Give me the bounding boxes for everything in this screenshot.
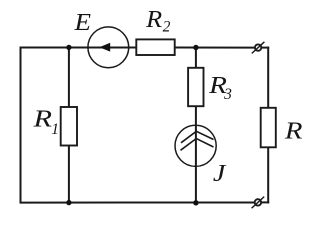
wire top right segment (261, 47, 269, 49)
wire R1 branch upper (68, 47, 70, 108)
wire bottom right segment (261, 201, 269, 203)
svg-text:2: 2 (163, 19, 171, 36)
wire middle branch upper (195, 47, 197, 68)
current source J circle (175, 125, 216, 166)
resistor R body (261, 108, 276, 148)
node junction dot bottom left (66, 200, 71, 205)
terminal bottom right (252, 197, 265, 209)
node junction dot top middle (193, 45, 198, 50)
voltage source E arrow (99, 43, 110, 52)
svg-text:R: R (145, 7, 162, 33)
current source J chevron upper (181, 131, 214, 143)
current source J chevron lower (181, 139, 214, 151)
node junction dot bottom middle (193, 200, 198, 205)
svg-text:R: R (32, 106, 52, 132)
wire R1 branch lower (68, 145, 70, 203)
wire bottom segment (20, 202, 255, 204)
terminal top right (252, 42, 265, 54)
label R3 (208, 73, 232, 103)
resistor R2 body (136, 39, 174, 55)
wire right rail lower (267, 147, 269, 203)
wire left rail (20, 47, 22, 204)
wire middle branch through J (195, 106, 197, 204)
svg-text:R: R (284, 119, 303, 145)
wire top left segment (20, 47, 137, 49)
label R2 (145, 7, 170, 36)
wire right rail upper (267, 47, 269, 108)
voltage source E circle (88, 27, 129, 68)
node junction dot top left (66, 45, 71, 50)
svg-text:3: 3 (223, 86, 232, 103)
resistor R3 body (188, 68, 203, 106)
svg-text:E: E (73, 10, 91, 36)
wire top middle segment (175, 47, 256, 49)
resistor R1 body (61, 107, 77, 146)
svg-text:1: 1 (51, 121, 59, 138)
label R1 (32, 106, 59, 138)
svg-text:J: J (213, 161, 227, 187)
